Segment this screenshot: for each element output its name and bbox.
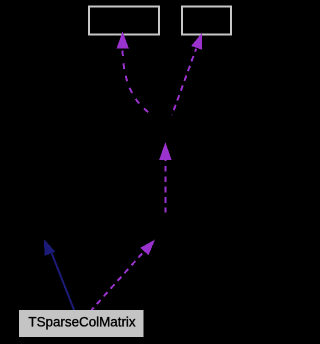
wire edge e solid blue inheritance [52,254,75,311]
wire edge b dashed to top-right box [172,49,196,115]
node TSparseColMatrix [19,310,144,337]
node box top-right (empty, gray border) [182,6,231,34]
node box top-left (empty, gray border) [89,6,159,34]
wire edge d dashed from TSparseColMatrix [92,251,145,310]
svg-text:TSparseColMatrix: TSparseColMatrix [28,315,135,330]
arrowhead edge d [140,240,155,256]
arrowhead edge b [191,33,202,50]
wire edge a dashed to top-left box [123,45,151,114]
arrowhead edge c [159,142,171,160]
arrowhead edge a [117,31,129,48]
wire edge c vertical dashed [164,160,166,213]
arrowhead edge e [44,239,55,256]
